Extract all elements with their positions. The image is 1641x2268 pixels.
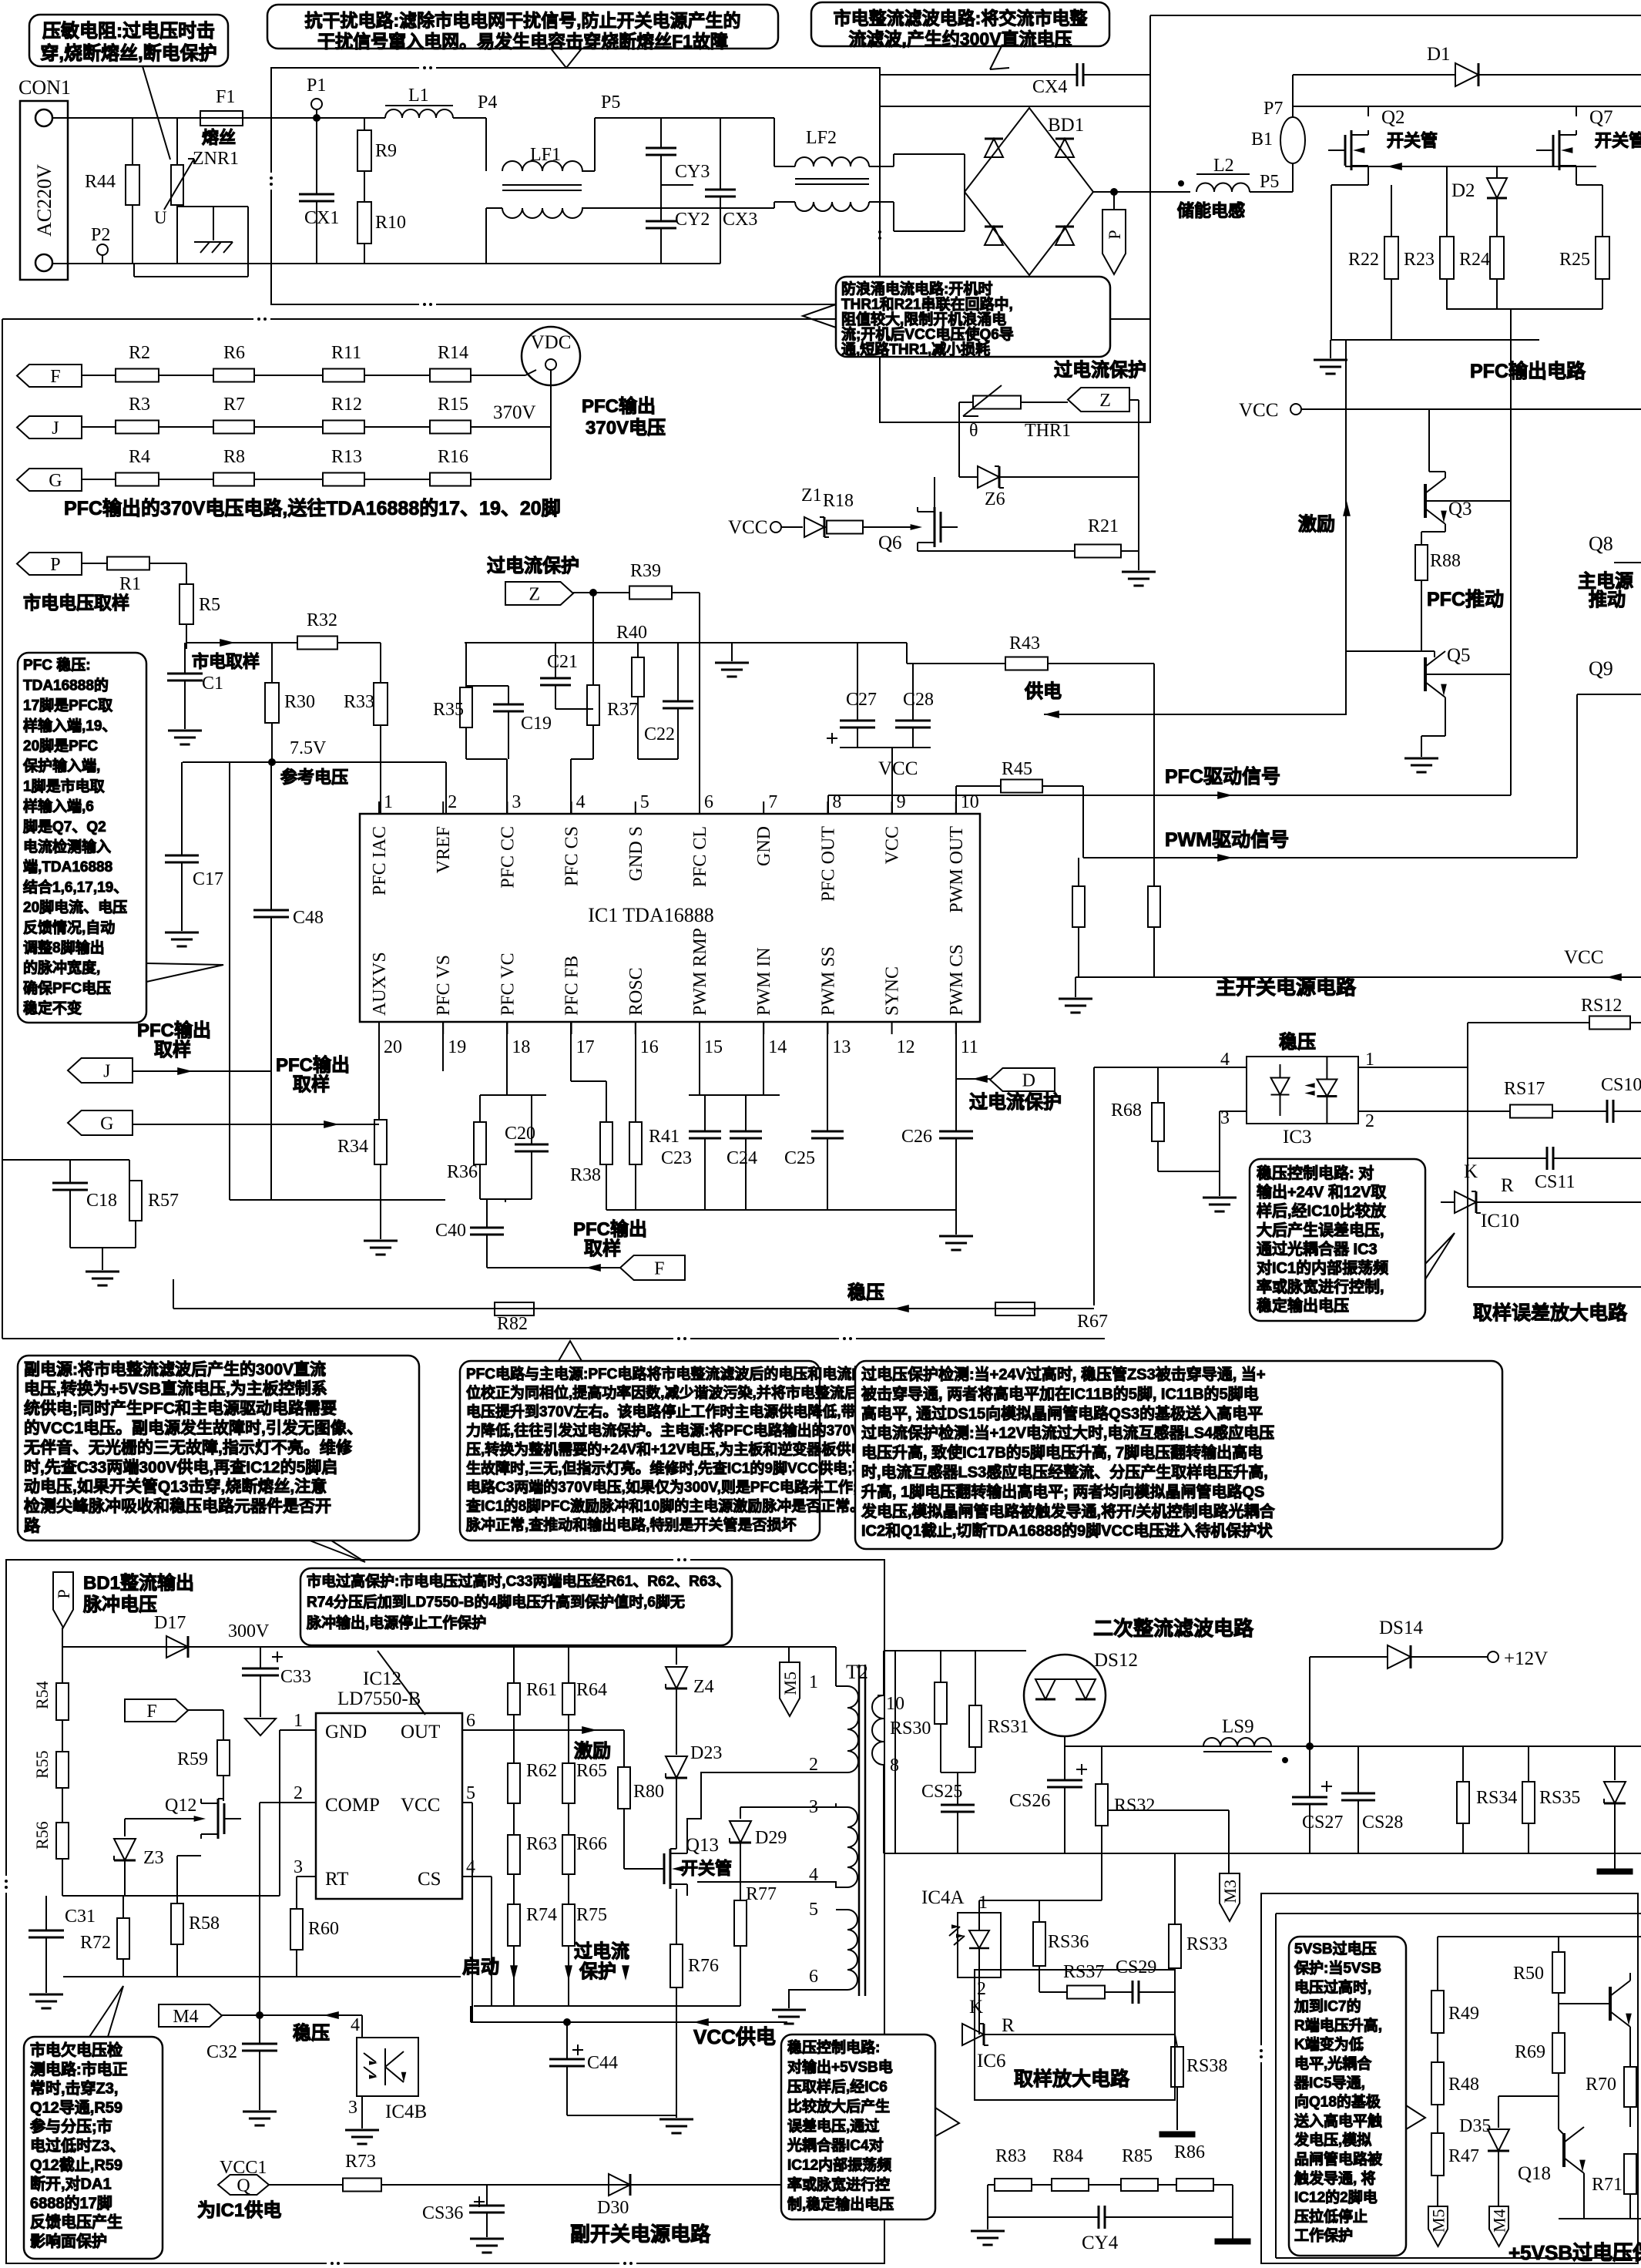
svg-text:R30: R30: [284, 692, 315, 712]
svg-text:20: 20: [384, 1037, 402, 1057]
svg-text:R4: R4: [129, 447, 150, 467]
svg-text:向Q18的基极: 向Q18的基极: [1294, 2093, 1381, 2111]
resistor under PWM node: [1078, 858, 1079, 886]
IC1 pin 8 (PFC OUT): [827, 801, 828, 814]
svg-text:R62: R62: [526, 1761, 557, 1781]
svg-text:储能电感: 储能电感: [1177, 201, 1245, 220]
svg-text:Q2: Q2: [1381, 107, 1405, 128]
svg-text:P: P: [1105, 230, 1124, 239]
svg-text:过电压保护检测:当+24V过高时, 稳压管ZS3被击穿导通,: 过电压保护检测:当+24V过高时, 稳压管ZS3被击穿导通, 当+: [861, 1365, 1266, 1383]
svg-text:3: 3: [512, 792, 521, 812]
svg-text:动电压,如果开关管Q13击穿,烧断熔丝,注意: 动电压,如果开关管Q13击穿,烧断熔丝,注意: [24, 1477, 327, 1496]
svg-text:PFC推动: PFC推动: [1427, 589, 1504, 610]
capacitor CX3: [720, 118, 721, 190]
svg-text:PFC FB: PFC FB: [562, 956, 582, 1016]
svg-text:DS14: DS14: [1379, 1618, 1423, 1638]
svg-text:C19: C19: [521, 714, 552, 734]
wire: IC3 pin4: [1094, 1067, 1247, 1068]
wire: LF1 bottom out: [582, 207, 720, 209]
svg-text:R80: R80: [633, 1782, 664, 1802]
svg-text:CS: CS: [418, 1869, 441, 1890]
flag F: [17, 365, 82, 387]
svg-text:开关管: 开关管: [1595, 131, 1641, 150]
svg-text:14: 14: [768, 1037, 787, 1057]
flag M4 (right): [1489, 2206, 1508, 2246]
svg-text:通过光耦合器 IC3: 通过光耦合器 IC3: [1257, 1239, 1378, 1258]
flag G: [17, 469, 82, 491]
flag F (mid): [620, 1255, 685, 1280]
wire: LF1 top out to P5: [582, 170, 595, 172]
svg-text:比较放大后产生: 比较放大后产生: [787, 2097, 890, 2115]
svg-text:17脚是PFC取: 17脚是PFC取: [23, 697, 112, 714]
svg-text:VCC: VCC: [878, 758, 918, 779]
svg-text:稳压: 稳压: [1279, 1031, 1316, 1053]
svg-text:Q12截止,R59: Q12截止,R59: [30, 2155, 122, 2174]
svg-text:副电源:将市电整流滤波后产生的300V直流: 副电源:将市电整流滤波后产生的300V直流: [24, 1360, 326, 1379]
svg-text:R23: R23: [1404, 250, 1435, 270]
svg-text:R18: R18: [823, 491, 854, 511]
VDC meter circle: [522, 327, 580, 385]
resistor R10: [364, 171, 365, 202]
svg-text:PWM OUT: PWM OUT: [947, 826, 967, 913]
svg-text:稳定输出电压: 稳定输出电压: [1257, 1296, 1349, 1315]
svg-text:CS11: CS11: [1535, 1172, 1575, 1192]
sampling amp box: [975, 1970, 1175, 2100]
wire: VREF pin2 riser: [445, 762, 447, 814]
wire: bus to VCC caps: [678, 642, 907, 643]
wire: neutral bottom rail: [52, 263, 720, 264]
wire: Q18 emitter bottom: [1583, 2173, 1585, 2219]
svg-text:稳压: 稳压: [293, 2022, 330, 2044]
svg-text:开关管: 开关管: [1387, 131, 1438, 150]
svg-text:CX1: CX1: [304, 208, 339, 228]
svg-text:B1: B1: [1251, 129, 1273, 150]
svg-text:R63: R63: [526, 1834, 557, 1854]
svg-text:PFC输出: PFC输出: [276, 1054, 350, 1076]
IC1 pin 5 (GND S): [635, 801, 636, 814]
svg-text:R49: R49: [1448, 2004, 1479, 2024]
svg-text:Z1: Z1: [801, 486, 822, 506]
svg-text:BD1: BD1: [1048, 115, 1084, 136]
svg-text:调整8脚输出: 调整8脚输出: [23, 939, 105, 956]
svg-text:BD1整流输出: BD1整流输出: [83, 1572, 194, 1594]
svg-text:RS12: RS12: [1581, 996, 1622, 1016]
svg-text:19: 19: [448, 1037, 466, 1057]
svg-text:P5: P5: [1260, 172, 1279, 192]
svg-text:二次整流滤波电路: 二次整流滤波电路: [1093, 1617, 1254, 1640]
svg-text:C24: C24: [727, 1148, 757, 1168]
svg-text:R40: R40: [616, 623, 647, 643]
flag M4: [159, 2004, 222, 2027]
svg-text:R65: R65: [576, 1761, 607, 1781]
svg-text:Q9: Q9: [1589, 657, 1613, 680]
svg-text:R16: R16: [438, 447, 468, 467]
svg-text:器IC5导通,: 器IC5导通,: [1294, 2075, 1365, 2092]
svg-text:IC12内部振荡频: IC12内部振荡频: [787, 2156, 891, 2174]
svg-text:PFC 稳压:: PFC 稳压:: [23, 656, 91, 674]
svg-text:Z4: Z4: [693, 1677, 714, 1697]
wire: CY mid node: [661, 184, 693, 186]
svg-text:17: 17: [576, 1037, 595, 1057]
svg-text:F: F: [146, 1702, 156, 1722]
wire: B1 to drain rail: [1292, 106, 1294, 117]
IC1 pin 17 (PFC FB): [571, 1022, 572, 1034]
svg-text:R69: R69: [1515, 2042, 1545, 2062]
svg-text:防浪涌电流电路:开机时: 防浪涌电流电路:开机时: [841, 280, 992, 297]
wire: Q5 emitter to ground: [1445, 697, 1446, 736]
IC1 box: [360, 814, 980, 1022]
svg-text:压拉低停止: 压拉低停止: [1294, 2207, 1367, 2225]
bus under C18/R57: [70, 1247, 136, 1248]
svg-text:对IC1的内部振荡频: 对IC1的内部振荡频: [1257, 1258, 1388, 1277]
svg-text:C27: C27: [846, 690, 877, 710]
secondary ground bus: [884, 1853, 1641, 1854]
IC1 pin 19 (PFC VS): [442, 1022, 444, 1034]
svg-text:Q3: Q3: [1448, 499, 1472, 519]
svg-text:R47: R47: [1448, 2146, 1479, 2166]
svg-text:13: 13: [832, 1037, 851, 1057]
svg-text:R38: R38: [570, 1165, 601, 1185]
callout pointer line to CX4: [990, 46, 1002, 69]
svg-text:PWM RMP: PWM RMP: [690, 928, 710, 1016]
svg-text:无伴音、无光栅的三无故障,指示灯不亮。维修: 无伴音、无光栅的三无故障,指示灯不亮。维修: [24, 1438, 353, 1457]
capacitor CX1: [316, 118, 317, 194]
callout: aux supply note: [18, 1356, 419, 1541]
svg-text:DS12: DS12: [1094, 1650, 1138, 1671]
svg-text:压,转换为整机需要的+24V和+12V电压,为主板和逆变器板: 压,转换为整机需要的+24V和+12V电压,为主板和逆变器板供电;发: [466, 1440, 886, 1458]
svg-text:15: 15: [704, 1037, 723, 1057]
svg-text:电压过高时,: 电压过高时,: [1294, 1978, 1371, 1996]
svg-text:F: F: [654, 1259, 664, 1279]
svg-text:Q7: Q7: [1589, 107, 1613, 128]
svg-text:VCC: VCC: [1239, 400, 1278, 421]
svg-text:R22: R22: [1348, 250, 1379, 270]
svg-text:过电流保护: 过电流保护: [1054, 360, 1146, 381]
svg-text:取样: 取样: [584, 1238, 621, 1259]
svg-text:稳压: 稳压: [847, 1282, 884, 1303]
svg-text:误差电压,通过: 误差电压,通过: [787, 2117, 879, 2135]
svg-text:ROSC: ROSC: [626, 967, 646, 1016]
svg-text:5: 5: [466, 1783, 475, 1803]
svg-text:RS17: RS17: [1504, 1079, 1545, 1099]
flag P (mains sample): [17, 553, 82, 575]
svg-text:VCC: VCC: [728, 517, 767, 538]
svg-text:+12V: +12V: [1504, 1648, 1548, 1669]
wire: IC4A pin1 up: [978, 1900, 980, 1913]
svg-text:OUT: OUT: [401, 1722, 440, 1742]
svg-text:R83: R83: [995, 2146, 1026, 2166]
wire: bottom rail to LF2: [720, 207, 774, 209]
svg-text:C23: C23: [661, 1148, 692, 1168]
flag M5 (right): [1428, 2206, 1448, 2246]
svg-text:脉冲输出,电源停止工作保护: 脉冲输出,电源停止工作保护: [306, 1614, 486, 1631]
svg-text:R86: R86: [1174, 2142, 1205, 2162]
svg-text:RS33: RS33: [1186, 1934, 1227, 1954]
flag Z (to PFC CL): [505, 582, 573, 605]
flag M5 (primary): [780, 1662, 800, 1716]
svg-text:U: U: [154, 208, 167, 227]
svg-text:IC12: IC12: [363, 1668, 401, 1689]
wire: Q12 gate to Z3: [125, 1818, 195, 1819]
svg-text:16: 16: [640, 1037, 659, 1057]
svg-text:流;开机后VCC电压使Q6导: 流;开机后VCC电压使Q6导: [841, 325, 1014, 343]
T2 core: [858, 1665, 861, 1996]
svg-text:5VSB过电压: 5VSB过电压: [1294, 1940, 1377, 1957]
svg-text:C26: C26: [901, 1127, 932, 1147]
svg-text:参考电压: 参考电压: [280, 768, 348, 787]
resistor R9: [364, 118, 365, 130]
svg-text:R1: R1: [119, 574, 141, 594]
svg-text:Q5: Q5: [1447, 645, 1471, 666]
callout pointer V to EMI box: [551, 49, 582, 68]
svg-text:COMP: COMP: [325, 1795, 380, 1816]
callout pointer line to ZNR1: [143, 66, 170, 160]
svg-text:样后,经IC10比较放: 样后,经IC10比较放: [1257, 1201, 1387, 1220]
svg-text:影响面保护: 影响面保护: [30, 2232, 107, 2250]
svg-text:6: 6: [809, 1967, 818, 1987]
svg-text:PFC CS: PFC CS: [562, 826, 582, 886]
svg-text:市电整流滤波电路:将交流市电整: 市电整流滤波电路:将交流市电整: [834, 8, 1088, 28]
svg-text:抗干扰电路:滤除市电电网干扰信号,防止开关电源产生的: 抗干扰电路:滤除市电电网干扰信号,防止开关电源产生的: [304, 10, 740, 30]
svg-text:CX3: CX3: [723, 210, 757, 230]
svg-text:D30: D30: [597, 2198, 629, 2218]
svg-text:结合1,6,17,19、: 结合1,6,17,19、: [23, 878, 128, 895]
flag F (feedback): [125, 1699, 188, 1722]
wire: THR1 left down: [958, 402, 960, 477]
svg-text:P: P: [54, 1589, 73, 1598]
svg-text:D1: D1: [1427, 44, 1451, 65]
svg-text:3: 3: [348, 2098, 357, 2118]
svg-text:PFC VS: PFC VS: [434, 955, 454, 1016]
wire: IC12 pin4 CS: [462, 1876, 492, 1877]
svg-text:Q13: Q13: [686, 1835, 719, 1856]
svg-text:PWM SS: PWM SS: [818, 946, 838, 1016]
svg-text:IC10: IC10: [1481, 1211, 1519, 1231]
pointer from PFC regulation note: [146, 963, 223, 982]
svg-text:+5VSB过电压保: +5VSB过电压保: [1508, 2241, 1641, 2264]
svg-text:θ: θ: [969, 421, 978, 441]
svg-text:R: R: [1501, 1175, 1514, 1196]
svg-text:PWM CS: PWM CS: [947, 944, 967, 1016]
IC1 pin 12 (SYNC): [891, 1022, 893, 1034]
svg-text:Z: Z: [529, 585, 540, 605]
svg-text:路: 路: [24, 1517, 41, 1535]
wire: after fuse to P1 and L1: [243, 117, 385, 119]
chassis ground: [213, 207, 214, 240]
svg-text:R8: R8: [223, 447, 245, 467]
svg-text:R2: R2: [129, 343, 150, 363]
svg-text:6888的17脚: 6888的17脚: [30, 2193, 112, 2212]
svg-text:370V电压: 370V电压: [586, 418, 666, 438]
svg-text:R56: R56: [32, 1821, 52, 1850]
cluster C23/C24 from pin15/pin14: [699, 1022, 700, 1095]
svg-text:RS37: RS37: [1063, 1962, 1104, 1982]
wire: +12 output rail: [1065, 1746, 1641, 1747]
svg-text:力降低,往往引发过电流保护。主电源:将PFC电路输出的370: 力降低,往往引发过电流保护。主电源:将PFC电路输出的370V直流电: [466, 1422, 904, 1440]
ground bus under IC1: [606, 1209, 956, 1211]
wire: left bus 2460: [62, 1895, 271, 1897]
pointer from 5VSB note: [935, 2108, 959, 2136]
svg-text:F: F: [50, 367, 60, 387]
wire: J to AUXVS area: [133, 1070, 272, 1072]
wire: live top rail: [52, 117, 202, 119]
svg-text:D23: D23: [690, 1743, 722, 1763]
svg-text:常时,击穿Z3,: 常时,击穿Z3,: [30, 2079, 118, 2098]
svg-text:300V: 300V: [228, 1621, 270, 1641]
wire: top DC rail: [1150, 15, 1641, 16]
svg-text:Z3: Z3: [143, 1848, 164, 1868]
wire: VCC rail: [1301, 408, 1641, 410]
IC1 pin 6 (PFC CL): [699, 801, 700, 814]
svg-text:CS27: CS27: [1302, 1813, 1343, 1833]
flag P (down): [1102, 210, 1126, 274]
svg-text:主电源: 主电源: [1578, 571, 1633, 592]
svg-text:M3: M3: [1220, 1880, 1240, 1903]
svg-text:P2: P2: [91, 225, 110, 245]
IC1 pin 2 (VREF): [442, 801, 444, 814]
svg-text:Z: Z: [1099, 391, 1111, 411]
wire: vertical link CX4/top: [1149, 15, 1151, 319]
zener at right: [1614, 1746, 1616, 1780]
svg-text:7.5V: 7.5V: [290, 738, 327, 758]
svg-text:4: 4: [351, 2015, 360, 2035]
svg-text:稳压控制电路:: 稳压控制电路:: [787, 2038, 880, 2056]
svg-text:R71: R71: [1592, 2175, 1623, 2195]
wire: 300V rail: [62, 1646, 836, 1648]
svg-text:端,TDA16888: 端,TDA16888: [23, 858, 112, 875]
svg-text:PWM驱动信号: PWM驱动信号: [1165, 829, 1289, 851]
svg-text:CS10: CS10: [1601, 1075, 1641, 1095]
wire: pin19 stub: [442, 1022, 444, 1071]
wire: IC12 pin1 GND: [280, 1729, 316, 1731]
wire: R69 to D35: [1498, 2095, 1559, 2097]
callout: anti-interference note box: [267, 5, 778, 49]
svg-text:市电取样: 市电取样: [192, 652, 260, 671]
svg-text:VDC: VDC: [531, 332, 572, 353]
callout: inrush note box: [836, 277, 1110, 357]
svg-text:R9: R9: [375, 141, 397, 161]
wire: VCC riser to bus: [1345, 340, 1347, 409]
svg-text:P4: P4: [478, 92, 497, 113]
svg-text:1: 1: [294, 1711, 303, 1731]
svg-text:流滤波,产生约300V直流电压: 流滤波,产生约300V直流电压: [848, 29, 1072, 49]
svg-text:干扰信号窜入电网。易发生电容击穿烧断熔丝F1故障: 干扰信号窜入电网。易发生电容击穿烧断熔丝F1故障: [317, 31, 728, 51]
svg-text:参与分压;市: 参与分压;市: [30, 2117, 112, 2135]
svg-text:1: 1: [809, 1672, 818, 1692]
wire: left secondary vertical: [894, 1651, 896, 1853]
svg-text:断开,对DA1: 断开,对DA1: [30, 2175, 112, 2193]
IC1 pin 9 (VCC): [891, 801, 893, 814]
pointer from 5VSB OVP note: [1406, 2105, 1425, 2129]
svg-text:R端电压升高,: R端电压升高,: [1294, 2016, 1382, 2034]
svg-text:电压,转换为+5VSB直流电压,为主板控制系: 电压,转换为+5VSB直流电压,为主板控制系: [24, 1379, 327, 1398]
svg-text:M5: M5: [780, 1672, 800, 1695]
svg-text:P7: P7: [1263, 99, 1283, 119]
wire: B1 to D1 anode: [1292, 75, 1294, 106]
bus Q2 source / ground: [1331, 339, 1539, 341]
svg-text:激励: 激励: [1298, 513, 1335, 535]
svg-text:GND S: GND S: [626, 826, 646, 881]
svg-text:IC3: IC3: [1283, 1127, 1312, 1147]
wire: Z to R39: [573, 592, 629, 593]
svg-text:12: 12: [897, 1037, 915, 1057]
svg-text:J: J: [52, 418, 59, 438]
svg-text:IC4B: IC4B: [385, 2102, 427, 2122]
svg-text:VCC: VCC: [883, 826, 903, 864]
svg-text:R50: R50: [1513, 1964, 1544, 1984]
svg-text:PFC输出: PFC输出: [573, 1218, 647, 1240]
svg-text:IC4A: IC4A: [921, 1887, 965, 1908]
svg-text:D: D: [1022, 1071, 1035, 1091]
svg-text:开关管: 开关管: [681, 1859, 732, 1878]
svg-text:P: P: [50, 555, 60, 575]
capacitor CY2: [660, 185, 662, 221]
svg-text:CY4: CY4: [1082, 2233, 1119, 2253]
pointer from OVP note: [378, 1651, 425, 1715]
svg-text:R45: R45: [1002, 759, 1032, 779]
svg-text:RS30: RS30: [890, 1719, 931, 1739]
svg-text:样输入端,6: 样输入端,6: [23, 798, 94, 815]
wire: IC4A pin2 down: [978, 1977, 980, 2034]
svg-text:L1: L1: [408, 86, 429, 106]
svg-text:CS36: CS36: [422, 2203, 463, 2223]
svg-text:20脚电流、电压: 20脚电流、电压: [23, 899, 127, 916]
svg-text:R6: R6: [223, 343, 245, 363]
svg-text:G: G: [49, 471, 62, 491]
svg-text:2: 2: [1365, 1111, 1374, 1131]
svg-text:R32: R32: [307, 610, 337, 630]
svg-text:Q12导通,R59: Q12导通,R59: [30, 2098, 122, 2116]
svg-text:R7: R7: [223, 395, 245, 415]
flag M3: [1220, 1873, 1240, 1921]
svg-text:保护:当5VSB: 保护:当5VSB: [1294, 1959, 1381, 1977]
wire: F to R59: [188, 1709, 223, 1711]
flag J (mid): [68, 1058, 133, 1083]
resistor under PFC node: [1148, 886, 1160, 927]
svg-text:R74: R74: [526, 1905, 557, 1925]
svg-text:R37: R37: [607, 700, 638, 720]
svg-text:J: J: [103, 1062, 110, 1082]
svg-text:R5: R5: [199, 595, 220, 615]
svg-text:PFC输出: PFC输出: [137, 1020, 211, 1041]
svg-text:电流检测输入: 电流检测输入: [23, 838, 111, 855]
wire: LF1 bottom left: [486, 207, 502, 209]
svg-text:GND: GND: [754, 826, 774, 866]
svg-text:R76: R76: [688, 1956, 719, 1976]
wire: ZNR1 bottom link: [177, 206, 248, 207]
svg-text:AUXVS: AUXVS: [370, 952, 390, 1016]
VCC node bus: [840, 747, 931, 748]
svg-text:CON1: CON1: [18, 76, 71, 99]
svg-text:CS28: CS28: [1362, 1813, 1403, 1833]
VCC return wire: [1076, 976, 1641, 978]
svg-text:IC12的2脚电: IC12的2脚电: [1294, 2189, 1378, 2206]
svg-text:R68: R68: [1111, 1100, 1142, 1121]
callout: regulation control note: [1250, 1159, 1425, 1321]
svg-text:L2: L2: [1213, 156, 1234, 176]
wire: OUT pin6 drive: [462, 1729, 624, 1731]
svg-text:R39: R39: [630, 561, 661, 581]
svg-text:1: 1: [384, 792, 393, 812]
svg-text:GND: GND: [325, 1722, 367, 1742]
wire: Q13 source down: [676, 1889, 677, 1896]
bottom section box: [6, 1560, 884, 2263]
svg-text:市电电压取样: 市电电压取样: [23, 593, 129, 613]
svg-text:CY3: CY3: [675, 162, 710, 182]
svg-text:升高, 1脚电压翻转输出高电平; 两者均向模拟晶闸管电路Q: 升高, 1脚电压翻转输出高电平; 两者均向模拟晶闸管电路QS: [861, 1482, 1264, 1500]
svg-text:7: 7: [768, 792, 777, 812]
svg-text:C18: C18: [86, 1191, 117, 1211]
